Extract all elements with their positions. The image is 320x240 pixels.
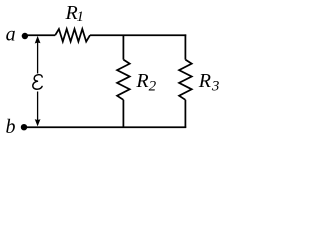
- wire middle branch bottom (R2 to bottom rail): [122, 100, 124, 127]
- node a: [22, 33, 28, 39]
- resistor R1: [55, 29, 90, 42]
- emf arrow shaft upper: [37, 42, 39, 74]
- svg-text:3: 3: [211, 79, 220, 95]
- wire top rail right (R1 to top-right corner): [90, 34, 186, 36]
- wire bottom rail (node b to bottom-right corner): [25, 126, 186, 128]
- wire right branch bottom (R3 to bottom-right corner): [184, 100, 186, 128]
- resistor R3: [179, 60, 192, 100]
- wire right branch top (top-right corner to R3): [184, 34, 186, 59]
- node b: [21, 124, 27, 130]
- wire top rail left (node a to R1): [25, 34, 55, 36]
- emf arrowhead up: [35, 36, 41, 44]
- svg-text:1: 1: [76, 9, 84, 25]
- resistor R2: [117, 60, 130, 100]
- svg-text:R: R: [135, 70, 148, 92]
- svg-text:2: 2: [149, 79, 157, 95]
- emf arrow shaft lower: [37, 92, 39, 121]
- wire middle branch top (junction to R2): [122, 35, 124, 59]
- emf arrowhead down: [35, 119, 41, 126]
- svg-text:R: R: [198, 70, 211, 92]
- svg-text:b: b: [6, 116, 16, 137]
- label EMF script E: [33, 75, 42, 90]
- svg-text:a: a: [6, 24, 16, 46]
